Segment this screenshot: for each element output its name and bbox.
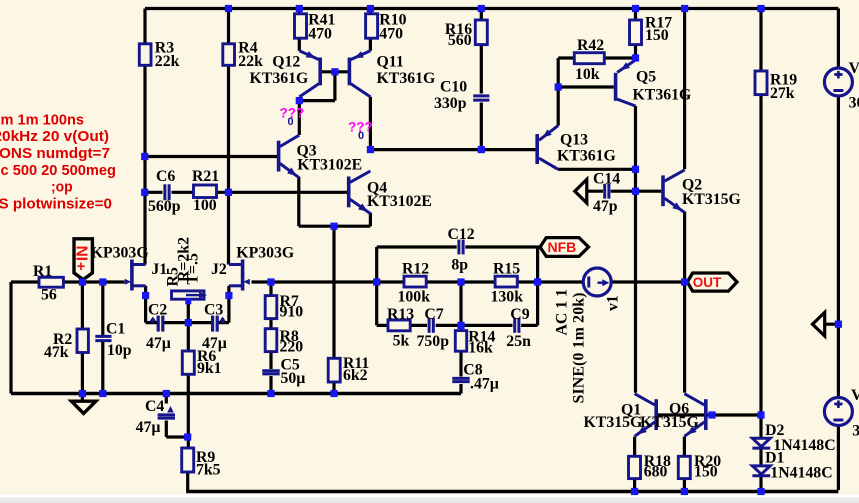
svg-text:8p: 8p [451, 256, 468, 273]
wire ground rail [11, 392, 461, 395]
svg-text:50µ: 50µ [281, 370, 306, 387]
svg-text:6k2: 6k2 [343, 367, 368, 384]
capacitor capacitor C12 [459, 240, 463, 255]
svg-text:16k: 16k [468, 339, 493, 356]
wire R10 column [369, 9, 372, 51]
wire V+ top rail [145, 7, 838, 10]
wire ground arrow stub [825, 323, 839, 326]
junction [457, 322, 464, 329]
status bar strip at bottom [0, 495, 859, 498]
wire Q2 base lead [636, 190, 662, 193]
wire VAS column [634, 106, 637, 393]
junction [99, 390, 106, 397]
svg-text:47p: 47p [593, 198, 618, 215]
junction [163, 390, 170, 397]
wire C12 row to NFB [377, 245, 540, 248]
resistor R12 [404, 276, 426, 287]
resistor R21 [194, 185, 217, 198]
junction [296, 5, 303, 12]
junction [142, 292, 149, 299]
resistor R19 [755, 71, 767, 95]
svg-text:0: 0 [288, 116, 294, 128]
wire R17 column [634, 9, 637, 61]
junction [757, 488, 764, 495]
svg-text:47µ: 47µ [136, 419, 161, 436]
svg-text:KP303G: KP303G [236, 245, 294, 262]
wire Q12-Q11 base tie [301, 72, 348, 101]
svg-text:Q5: Q5 [636, 69, 656, 86]
wire input row to R1 and J1 gate [11, 280, 125, 283]
junction [141, 189, 148, 196]
junction [225, 189, 232, 196]
svg-text:100k: 100k [398, 289, 431, 306]
wire R5 wiper tap [187, 299, 190, 322]
wire left loop [9, 282, 12, 394]
junction [681, 488, 688, 495]
transistor Q4 [349, 171, 371, 214]
transistor Q3 [279, 135, 300, 178]
wire ground stub [81, 394, 84, 401]
wire C14 row [589, 190, 636, 193]
wire J2 source down [227, 286, 230, 323]
junction [225, 292, 232, 299]
junction [184, 433, 191, 440]
svg-text:C9: C9 [510, 306, 529, 323]
svg-text:30: 30 [852, 423, 859, 440]
svg-text:R1: R1 [33, 263, 52, 280]
junction [478, 146, 485, 153]
resistor R42 [574, 53, 604, 64]
resistor R3 [139, 44, 151, 66]
svg-text:R13: R13 [387, 306, 414, 323]
resistor R41 [295, 14, 307, 38]
svg-text:;op: ;op [51, 179, 73, 196]
capacitor capacitor C3 (polarized) [213, 316, 218, 332]
wire R16-C10 column [480, 9, 483, 150]
junction [632, 54, 639, 61]
svg-text:47k: 47k [44, 344, 69, 361]
svg-text:R42: R42 [577, 37, 604, 54]
capacitor capacitor C4 (polarized) [158, 415, 175, 418]
resistor R7 [265, 296, 277, 319]
svg-text:AC 1 1: AC 1 1 [554, 289, 571, 336]
wire Q11 collector column [369, 97, 372, 150]
svg-text:10k: 10k [575, 66, 600, 83]
wire R2 column [81, 282, 84, 394]
wire R14-C8 column [459, 282, 461, 394]
svg-text:C4: C4 [145, 398, 164, 415]
wire C12 left column [375, 247, 378, 325]
svg-text:150: 150 [694, 464, 718, 481]
wire Q13 base row [370, 148, 535, 151]
wire J2 gate lead [252, 280, 272, 283]
wire R6 to C4 node and R9 [187, 323, 190, 448]
svg-text:680: 680 [644, 464, 668, 481]
svg-text:C10: C10 [440, 79, 467, 96]
svg-text:c 500 20 500meg: c 500 20 500meg [1, 162, 117, 179]
resistor R18 [629, 456, 641, 478]
junction [534, 278, 541, 285]
junction [373, 278, 380, 285]
junction [632, 166, 639, 173]
svg-text:750p: 750p [417, 333, 450, 350]
svg-text:220: 220 [280, 339, 304, 356]
svg-text:330p: 330p [434, 95, 467, 112]
wire bottom supply rail [186, 490, 838, 493]
svg-text:22k: 22k [155, 53, 180, 70]
voltage source V4 [824, 398, 852, 426]
svg-text:.47µ: .47µ [470, 376, 499, 393]
svg-text:C12: C12 [448, 226, 475, 243]
junction [367, 5, 374, 12]
svg-text:Q11: Q11 [377, 53, 404, 70]
transistor Q2 [663, 170, 685, 213]
svg-text:9k1: 9k1 [197, 360, 222, 377]
ground arrow at C14 [575, 179, 587, 203]
junction [632, 188, 639, 195]
svg-text:KT361G: KT361G [633, 87, 692, 104]
capacitor capacitor C7 [429, 318, 433, 333]
capacitor capacitor C2 (polarized) [158, 316, 163, 332]
resistor R1 [39, 277, 63, 287]
junction [225, 5, 232, 12]
wire Q3 base row [145, 155, 278, 158]
svg-text:20kHz 20 v(Out): 20kHz 20 v(Out) [0, 128, 109, 145]
svg-text:ONS numdgt=7: ONS numdgt=7 [0, 145, 110, 162]
junction [555, 83, 562, 90]
svg-text:130k: 130k [491, 289, 524, 306]
ground symbol (triangle) [71, 401, 96, 413]
svg-text:5k: 5k [393, 333, 410, 350]
svg-text:Q12: Q12 [272, 53, 300, 70]
svg-text:C2: C2 [148, 302, 167, 319]
svg-text:C1: C1 [106, 321, 125, 338]
svg-text:C14: C14 [593, 171, 620, 188]
wire R9 to bottom rail [186, 472, 189, 492]
JFET J2 [229, 260, 243, 291]
resistor R13 [388, 320, 410, 331]
capacitor capacitor C10 [473, 96, 489, 100]
svg-text:150: 150 [645, 27, 669, 44]
port tag OUT [687, 273, 737, 291]
svg-text:KT361G: KT361G [250, 70, 309, 87]
wire J1 source to C2 [146, 286, 157, 323]
svg-text:KP303G: KP303G [91, 245, 149, 262]
junction [185, 319, 192, 326]
potentiometer R5 [172, 291, 205, 299]
junction [141, 153, 148, 160]
wire main row to OUT [271, 280, 687, 283]
junction [835, 321, 842, 328]
svg-text:910: 910 [280, 304, 304, 321]
wire R42 right link [604, 56, 635, 59]
wire Q1 emitter column [633, 437, 636, 492]
resistor R6 [182, 351, 194, 374]
junction [757, 411, 764, 418]
svg-text:KT315G: KT315G [682, 191, 741, 208]
wire Q1-Q6 base row to diodes [658, 413, 761, 416]
resistor R14 [455, 331, 466, 352]
capacitor capacitor C9 [515, 318, 519, 333]
resistor R9 [182, 448, 194, 472]
wire Q6 emitter column [683, 437, 686, 492]
junction [457, 278, 464, 285]
wire R41 column [298, 9, 301, 51]
net tag NFB [540, 238, 589, 257]
resistor R16 [475, 20, 487, 45]
wire R3 / J1 drain column [143, 9, 146, 265]
junction [79, 278, 86, 285]
svg-text:R12: R12 [402, 261, 429, 278]
voltage source V3 [824, 68, 852, 96]
svg-text:R15: R15 [493, 261, 520, 278]
svg-text:22k: 22k [238, 53, 263, 70]
svg-text:KT361G: KT361G [557, 148, 616, 165]
wire C6-R21 row to Q4 base [145, 191, 348, 194]
junction [296, 97, 303, 104]
svg-text:V3: V3 [849, 60, 859, 77]
wire Q12 collector to Q3 collector [298, 101, 301, 135]
svg-text:56: 56 [41, 287, 57, 304]
svg-text:7k5: 7k5 [196, 462, 221, 479]
svg-text:470: 470 [308, 26, 332, 43]
ground arrow right side [813, 312, 825, 336]
svg-text:27k: 27k [770, 85, 795, 102]
junction [681, 278, 688, 285]
svg-text:KT315G: KT315G [584, 414, 643, 431]
transistor Q6 [684, 394, 705, 437]
signal source v1 [583, 268, 611, 296]
capacitor capacitor C14 [605, 184, 609, 199]
junction [330, 390, 337, 397]
wire R11 column [332, 226, 335, 393]
junction [478, 5, 485, 12]
svg-text:C6: C6 [156, 168, 175, 185]
junction [267, 278, 274, 285]
wire R4 / J2 drain column [227, 9, 230, 265]
svg-text:m 1m 100ns: m 1m 100ns [1, 112, 85, 129]
svg-text:V4: V4 [851, 387, 859, 404]
junction [99, 278, 106, 285]
resistor R15 [495, 276, 517, 287]
svg-text:1N4148C: 1N4148C [770, 465, 832, 482]
resistor R17 [630, 20, 642, 45]
wire C1 column [101, 282, 104, 394]
wire NFB drop [536, 248, 539, 325]
junction [708, 411, 715, 418]
wire Q3-Q4 emitter row [299, 177, 371, 226]
resistor R11 [328, 358, 340, 382]
capacitor capacitor C1 [95, 336, 111, 340]
transistor Q11 [349, 51, 370, 97]
capacitor capacitor C5 (polarized) [262, 371, 279, 374]
wire right supply column [837, 9, 840, 491]
svg-text:v1: v1 [605, 295, 622, 311]
diode D2 1N4148C [752, 438, 770, 448]
junction [367, 146, 374, 153]
svg-text:R21: R21 [192, 168, 219, 185]
R5 wiper arrow [186, 294, 200, 296]
svg-text:KT3102E: KT3102E [367, 193, 432, 210]
junction [681, 5, 688, 12]
svg-text:560p: 560p [148, 198, 181, 215]
junction [331, 68, 338, 75]
junction [632, 5, 639, 12]
resistor R8 [265, 329, 277, 352]
transistor Q12 [299, 51, 320, 97]
wire R19 column [759, 9, 762, 416]
resistor R20 [678, 456, 690, 478]
svg-text:25n: 25n [506, 333, 531, 350]
transistor Q13 [537, 126, 558, 170]
svg-text:10p: 10p [107, 342, 132, 359]
capacitor capacitor C8 (polarized) [452, 378, 469, 381]
wire R42 left to Q13 emitter [558, 58, 574, 126]
JFET J1 [132, 260, 146, 291]
wire Q13 collector row [558, 168, 636, 171]
svg-text:560: 560 [448, 32, 472, 49]
junction [79, 390, 86, 397]
svg-text:J2: J2 [211, 261, 227, 278]
resistor R2 [77, 329, 88, 353]
svg-text:Q13: Q13 [560, 132, 588, 149]
resistor R4 [223, 44, 235, 66]
svg-text:SINE(0 1m 20k): SINE(0 1m 20k) [571, 293, 588, 404]
transistor Q5 [616, 60, 636, 106]
wire R13-C7-C9 row [377, 324, 538, 327]
svg-text:KT3102E: KT3102E [297, 157, 362, 174]
svg-text:S plotwinsize=0: S plotwinsize=0 [0, 196, 112, 213]
svg-text:OUT: OUT [693, 275, 722, 290]
diode D1 1N4148C [752, 466, 770, 476]
wire C4 branch [166, 394, 187, 438]
svg-text:KT361G: KT361G [377, 70, 436, 87]
wire C2-C3 center row [164, 321, 229, 324]
wire diode column [759, 415, 762, 492]
wire Q2 collector column [683, 9, 686, 170]
transistor Q1 [635, 394, 657, 437]
svg-text:C3: C3 [204, 302, 223, 319]
junction [267, 390, 274, 397]
junction [631, 488, 638, 495]
resistor R10 [366, 14, 378, 38]
svg-text:30: 30 [849, 95, 859, 112]
wire Q5 base row [558, 85, 614, 88]
wire R7-R8-C5 column [269, 282, 272, 394]
svg-text:C7: C7 [424, 306, 443, 323]
wire Q2 emitter / output column [683, 212, 686, 393]
junction [330, 223, 337, 230]
svg-text:+: + [77, 259, 85, 275]
svg-text:100: 100 [193, 197, 217, 214]
svg-text:470: 470 [379, 26, 403, 43]
junction [757, 5, 764, 12]
port tag IN [74, 239, 92, 280]
junction R5 wiper [185, 298, 191, 304]
svg-text:0: 0 [358, 130, 364, 142]
capacitor capacitor C6 [165, 184, 169, 200]
svg-text:KT315G: KT315G [640, 414, 699, 431]
svg-text:NFB: NFB [548, 239, 577, 255]
svg-text:47µ: 47µ [146, 335, 171, 352]
svg-text:T=.5: T=.5 [185, 253, 202, 284]
